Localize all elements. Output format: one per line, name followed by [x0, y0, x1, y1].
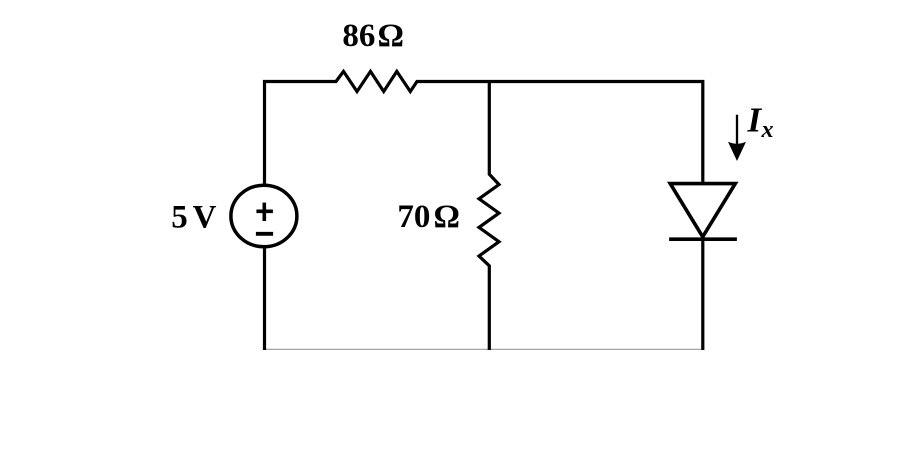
svg-text:70: 70 — [397, 199, 430, 235]
svg-text:Ω: Ω — [378, 18, 404, 54]
svg-text:Ω: Ω — [434, 199, 460, 235]
svg-text:5: 5 — [171, 199, 188, 235]
svg-text:x: x — [761, 117, 774, 143]
svg-text:86: 86 — [342, 18, 375, 54]
svg-text:I: I — [747, 101, 763, 140]
svg-text:V: V — [193, 199, 217, 235]
